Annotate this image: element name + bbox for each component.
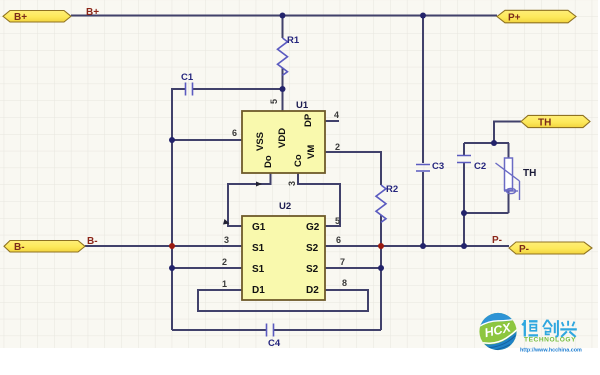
svg-text:http://www.hcchina.com: http://www.hcchina.com — [520, 348, 582, 354]
svg-text:S1: S1 — [252, 264, 265, 275]
svg-text:C2: C2 — [474, 161, 486, 172]
svg-text:P-: P- — [492, 235, 502, 246]
svg-text:P-: P- — [519, 244, 529, 255]
svg-text:TH: TH — [538, 118, 551, 129]
svg-text:U1: U1 — [296, 100, 309, 111]
svg-text:TH: TH — [523, 168, 536, 179]
svg-text:Do: Do — [263, 155, 274, 168]
svg-text:4: 4 — [334, 110, 339, 120]
svg-text:S2: S2 — [306, 243, 319, 254]
svg-text:U2: U2 — [279, 201, 291, 212]
svg-text:VDD: VDD — [277, 128, 288, 148]
svg-text:S1: S1 — [252, 243, 265, 254]
svg-text:D1: D1 — [252, 285, 265, 296]
svg-text:2: 2 — [335, 142, 340, 152]
svg-text:1: 1 — [222, 279, 227, 289]
svg-text:6: 6 — [232, 128, 237, 138]
svg-text:3: 3 — [287, 181, 297, 186]
svg-text:R2: R2 — [386, 184, 398, 195]
svg-text:8: 8 — [342, 278, 347, 288]
svg-text:P+: P+ — [508, 13, 521, 24]
svg-text:7: 7 — [340, 257, 345, 267]
svg-text:3: 3 — [224, 235, 229, 245]
svg-text:2: 2 — [222, 257, 227, 267]
svg-text:Co: Co — [293, 154, 304, 167]
svg-text:D2: D2 — [306, 285, 319, 296]
svg-text:TECHNOLOGY: TECHNOLOGY — [524, 337, 576, 344]
svg-text:DP: DP — [303, 113, 314, 127]
svg-text:S2: S2 — [306, 264, 319, 275]
svg-text:C4: C4 — [268, 338, 281, 349]
svg-text:VSS: VSS — [255, 132, 266, 151]
svg-text:VM: VM — [306, 145, 317, 159]
svg-text:G1: G1 — [252, 222, 266, 233]
svg-text:C1: C1 — [181, 72, 194, 83]
svg-text:B-: B- — [87, 236, 98, 247]
svg-text:5: 5 — [335, 216, 340, 226]
svg-text:B-: B- — [14, 242, 25, 253]
svg-text:G2: G2 — [306, 222, 320, 233]
svg-text:C3: C3 — [432, 161, 444, 172]
svg-text:R1: R1 — [287, 35, 300, 46]
svg-text:5: 5 — [269, 99, 279, 104]
svg-text:B+: B+ — [86, 7, 99, 18]
svg-text:B+: B+ — [14, 12, 27, 23]
svg-text:6: 6 — [336, 235, 341, 245]
